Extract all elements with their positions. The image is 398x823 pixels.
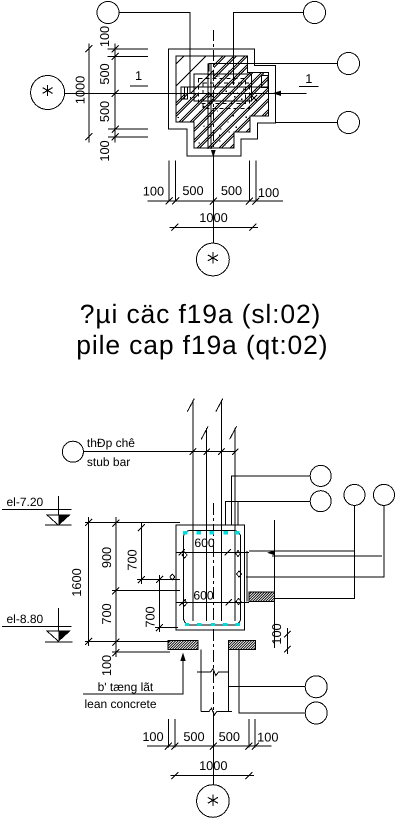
- leader from top-left circle: [119, 13, 190, 94]
- bottom dim chain line: [147, 745, 272, 747]
- pile cap outer outline: [169, 49, 276, 156]
- svg-text:el-7.20: el-7.20: [7, 495, 44, 509]
- svg-text:700: 700: [99, 603, 114, 624]
- left dim chain: [115, 517, 117, 657]
- svg-text:100: 100: [97, 140, 112, 161]
- bottom 1000 dim line: [171, 775, 254, 777]
- 600 dim lower: [176, 601, 249, 603]
- leader C1: [231, 476, 310, 525]
- svg-text:1600: 1600: [69, 568, 84, 596]
- svg-text:100: 100: [143, 184, 164, 199]
- circle bottom A: [305, 676, 327, 698]
- svg-text:100: 100: [142, 729, 163, 744]
- svg-text:1000: 1000: [73, 76, 88, 104]
- center line to bottom grid circle: [212, 712, 214, 785]
- circle C4: [374, 484, 395, 505]
- section label 1 left: [130, 85, 148, 87]
- leader right upper: [209, 64, 338, 72]
- leader right lower: [275, 122, 337, 124]
- extension lines bottom: [169, 161, 256, 202]
- section arrow: [273, 91, 282, 96]
- 100 dim right of lean: [284, 628, 290, 654]
- svg-text:1: 1: [305, 71, 312, 86]
- center line to bottom circle: [212, 156, 214, 243]
- vertical center line: [212, 30, 214, 156]
- left witness lines: [85, 522, 180, 652]
- svg-text:500: 500: [219, 729, 240, 744]
- stub bar circle: [62, 441, 83, 462]
- svg-text:900: 900: [99, 547, 114, 568]
- svg-text:b' tæng lãt: b' tæng lãt: [98, 680, 154, 694]
- leader bottom circle A: [228, 685, 305, 687]
- svg-text:500: 500: [182, 183, 203, 198]
- leader bottom circle B: [239, 650, 305, 713]
- svg-text:100: 100: [258, 185, 279, 200]
- right hatched strip: [249, 592, 274, 602]
- column dashed rect B: [203, 83, 250, 109]
- svg-text:700: 700: [143, 606, 158, 627]
- 600 dim upper: [176, 551, 249, 553]
- circle C1: [310, 465, 331, 486]
- svg-text:500: 500: [183, 729, 204, 744]
- svg-text:thÐp chê: thÐp chê: [87, 436, 135, 450]
- rebar hook box right: [262, 76, 269, 88]
- el-8.80 level mark: [2, 608, 72, 642]
- pile break line lower: [201, 708, 232, 715]
- pile break line upper: [197, 669, 228, 676]
- stub bar leader ticks: [190, 449, 239, 455]
- svg-text:100: 100: [257, 730, 278, 745]
- section cut line 1-1 horizontal: [65, 92, 307, 94]
- ticks left dims: [85, 45, 118, 140]
- svg-text:500: 500: [97, 63, 112, 84]
- rebar verticals above cap: [193, 400, 235, 621]
- grid circle left with asterisk: [31, 76, 65, 110]
- circle bottom B: [305, 702, 327, 724]
- leader C4: [246, 505, 384, 577]
- svg-text:1: 1: [135, 68, 142, 83]
- bottom dims extension lines: [168, 719, 255, 748]
- stirrup rounded rect: [184, 531, 241, 626]
- dim line 1000 left: [88, 44, 90, 143]
- svg-text:100: 100: [269, 623, 284, 644]
- leader C2: [225, 502, 310, 526]
- lean concrete strip left: [168, 641, 198, 650]
- vertical rebar pair: [208, 64, 211, 150]
- circle C2: [310, 491, 331, 512]
- svg-text:lean concrete: lean concrete: [85, 697, 157, 711]
- lean concrete leader: [83, 661, 183, 694]
- horizontal rebar: [182, 86, 268, 88]
- center line section: [212, 503, 214, 723]
- ticks bottom chain: [166, 198, 260, 205]
- svg-text:700: 700: [125, 549, 140, 570]
- svg-text:el-8.80: el-8.80: [7, 612, 44, 626]
- grid circle bottom with asterisk: [197, 243, 230, 276]
- callout circle top-left: [97, 2, 119, 24]
- svg-text:100: 100: [97, 26, 112, 47]
- circle C3: [344, 484, 365, 505]
- left dim ticks: [85, 519, 163, 656]
- lean concrete strip right: [228, 641, 255, 650]
- rebar X mark center: [208, 92, 214, 98]
- dim line chain left: [114, 44, 116, 143]
- callout circle right upper: [338, 53, 360, 75]
- svg-text:?µi cäc f19a (sl:02): ?µi cäc f19a (sl:02): [80, 299, 321, 329]
- cap section outer rect: [176, 525, 244, 630]
- left dim 700 upper: [140, 523, 142, 584]
- rebar X mark right: [251, 95, 257, 101]
- column dashed rect A: [199, 79, 246, 104]
- stub bar leader: [83, 451, 235, 453]
- callout circle top-right: [304, 2, 326, 24]
- rebar solid rect: [194, 74, 252, 101]
- cyan stirrup marks: [183, 531, 240, 626]
- bottom dim ticks: [165, 743, 259, 750]
- hatch fill of pile cap plan: [87, 56, 358, 148]
- svg-text:stub bar: stub bar: [87, 455, 130, 469]
- callout circle right lower: [338, 112, 360, 134]
- pile outline: [201, 650, 229, 712]
- bottom rebar arrow: [211, 150, 216, 158]
- dim line bottom chain: [148, 200, 284, 202]
- right side outline: [247, 520, 382, 648]
- svg-text:1000: 1000: [199, 758, 227, 773]
- witness lines left: [108, 49, 148, 137]
- el-7.20 level mark: [2, 496, 71, 525]
- pile cap inner outline: [176, 56, 268, 148]
- rebar diamonds: [170, 551, 242, 607]
- ticks 1000 bottom: [171, 224, 256, 231]
- right arrow: [267, 550, 275, 555]
- leader C3: [274, 505, 354, 598]
- bottom grid circle: [197, 785, 230, 818]
- rebar top arrows: [187, 399, 236, 440]
- dim line 1000 bottom: [170, 226, 258, 228]
- section label 1 right: [299, 85, 318, 87]
- left dim 1600: [88, 517, 90, 646]
- svg-text:1000: 1000: [199, 210, 227, 225]
- left dim 700 lower: [159, 575, 161, 632]
- rebar hook box left: [181, 87, 188, 99]
- svg-text:500: 500: [97, 101, 112, 122]
- leader from top-right circle: [233, 13, 303, 86]
- svg-text:600: 600: [193, 589, 214, 603]
- svg-text:100: 100: [99, 655, 114, 676]
- svg-text:pile cap f19a (qt:02): pile cap f19a (qt:02): [76, 330, 328, 360]
- svg-text:500: 500: [221, 183, 242, 198]
- svg-text:600: 600: [194, 536, 215, 550]
